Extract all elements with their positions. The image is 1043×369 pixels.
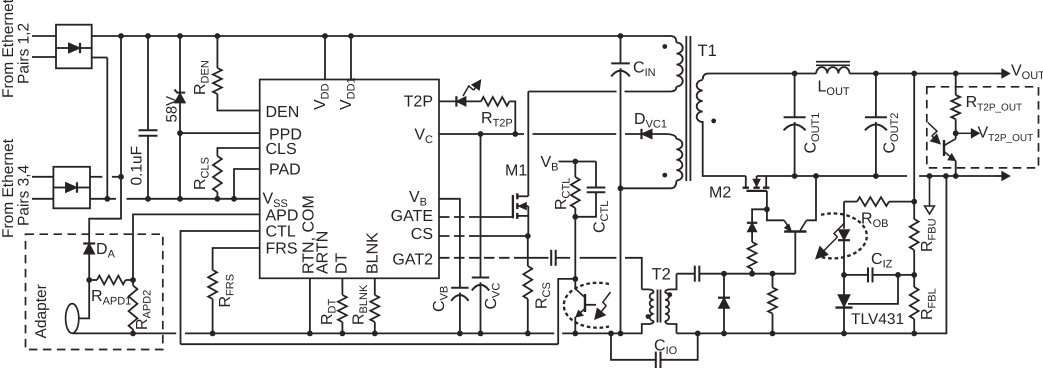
svg-text:Pairs 1,2: Pairs 1,2 — [16, 23, 33, 84]
junction LED cathode / TLV431 / CIZ — [841, 272, 847, 278]
wire T2 secondary to GND rail — [665, 321, 676, 334]
junction COUT2 top — [873, 71, 879, 77]
diode DVC1 — [640, 129, 642, 139]
wire BR2 positive out (crossover break at x=107) — [90, 176, 102, 178]
junction M1 source / CS / RCS — [525, 233, 531, 239]
junction RT2P on VC line — [512, 131, 518, 137]
pin RTN/ARTN stub to rail — [309, 278, 311, 333]
svg-text:M1: M1 — [505, 163, 527, 180]
svg-text:58V: 58V — [164, 96, 181, 123]
junction ground-marker — [927, 173, 933, 179]
wire pairs3,4 input top — [32, 176, 53, 178]
svg-text:RCTL: RCTL — [553, 178, 573, 210]
svg-text:GATE: GATE — [391, 208, 433, 225]
svg-text:Pairs 3,4: Pairs 3,4 — [16, 164, 33, 226]
svg-text:CS: CS — [411, 226, 433, 243]
wire primary RTN rail (breaks at CTL and opto verticals) — [72, 332, 176, 334]
T1 secondary winding — [703, 74, 709, 80]
svg-text:LOUT: LOUT — [818, 79, 850, 99]
svg-text:VDD1: VDD1 — [338, 77, 358, 110]
svg-text:GAT2: GAT2 — [392, 251, 433, 268]
arrow output return — [996, 175, 1002, 177]
resistor RAPD2 — [132, 280, 134, 285]
T1 bias winding — [676, 139, 682, 181]
wire secondary bottom to M2 drain — [703, 121, 746, 176]
svg-text:PAD: PAD — [269, 161, 301, 178]
wire Q3 base to drive line — [794, 232, 796, 274]
transformer T2 core — [657, 290, 659, 323]
wire secondary GND rail — [677, 176, 947, 333]
resistor RT2P_OUT — [955, 74, 957, 96]
svg-text:RT2P: RT2P — [481, 110, 513, 130]
junction BR2 positive — [118, 174, 124, 180]
wire jack tip to DA anode — [79, 280, 89, 318]
wire BR1 negative down to VSS rail — [106, 58, 108, 199]
junction gate-drive chain — [749, 271, 755, 277]
diode clamp on drive line — [723, 309, 725, 333]
light arrow into U3 (lightning) — [603, 292, 611, 306]
transistor Q3 PNP gate discharge — [784, 230, 806, 232]
diode DA — [83, 242, 95, 244]
wire gate node to speedup diode — [752, 209, 767, 223]
wire VOUT line — [709, 73, 817, 75]
svg-text:COUT2: COUT2 — [882, 113, 902, 154]
wire M1 source to CS — [527, 206, 529, 236]
svg-text:RCLS: RCLS — [192, 157, 212, 190]
T2 primary winding — [642, 289, 654, 292]
svg-text:Adapter: Adapter — [33, 284, 50, 338]
optocoupler U2 phototransistor — [943, 140, 945, 156]
LOUT core line 1 — [816, 61, 850, 63]
capacitor series drive — [694, 266, 696, 282]
dashed box T2P output — [927, 87, 1039, 168]
resistor RDEN — [216, 36, 218, 68]
junction REF tap — [895, 272, 901, 278]
resistor RDT — [341, 278, 343, 295]
transformer T1 core — [685, 36, 687, 181]
dashed circle opto U3 — [564, 283, 609, 328]
polarity dot T2 primary — [646, 314, 651, 319]
svg-text:CTL: CTL — [266, 223, 296, 240]
wire VOUT sense down — [913, 74, 915, 202]
svg-text:APD: APD — [266, 207, 299, 224]
polarity dot T2 secondary — [667, 292, 672, 297]
wire VB to RCTL — [559, 161, 576, 163]
transistor M1 n-channel MOSFET — [512, 195, 514, 218]
wire pairs1,2 input bottom — [32, 56, 56, 58]
pin VDD stub — [324, 36, 326, 80]
junction damping resistor — [770, 271, 776, 277]
svg-text:T2: T2 — [652, 266, 671, 284]
junction to secondary GND rail — [943, 173, 949, 179]
wire BR1 negative out — [92, 57, 107, 59]
svg-text:RT2P_OUT: RT2P_OUT — [966, 94, 1023, 114]
resistor gate-drive series — [748, 242, 757, 269]
resistor RFBU — [910, 219, 919, 250]
wire GAT2 (dashed run, series cap, crossover breaks) — [439, 257, 524, 259]
wire gate node to Q3 emitter — [767, 209, 784, 220]
svg-text:CLS: CLS — [266, 141, 297, 158]
svg-text:T1: T1 — [698, 42, 717, 60]
wire APD to adapter divider — [133, 214, 260, 280]
svg-text:VC: VC — [414, 127, 433, 147]
wire M1 drain to T1 primary — [527, 92, 529, 197]
arrow VOUT — [996, 73, 1002, 75]
wire pairs1,2 input top — [32, 35, 56, 37]
capacitor CIZ — [844, 274, 868, 276]
light arrow out (lightning) — [463, 86, 474, 96]
svg-text:DT: DT — [334, 252, 351, 274]
wire DVC1 anode to bias winding — [652, 134, 676, 139]
resistor damping on drive line — [772, 274, 774, 288]
svg-text:0.1uF: 0.1uF — [129, 146, 146, 186]
junction COUT1 top — [792, 71, 798, 77]
wire T2P pin — [439, 100, 456, 102]
junction FB divider — [911, 272, 917, 278]
junction M2 gate node — [764, 206, 770, 212]
svg-text:ARTN: ARTN — [315, 231, 332, 274]
junction DA / RAPD1 — [86, 277, 92, 283]
light arrow into U2 (lightning) — [928, 123, 937, 136]
junction RT2P_OUT top — [953, 71, 959, 77]
wire to CCTL top — [575, 161, 596, 163]
resistor RCS — [527, 236, 529, 266]
junction CVC top — [478, 131, 484, 137]
resistor RCLS — [217, 148, 259, 156]
diode gate-drive (series with resistor) — [747, 222, 757, 224]
wire DA to RAPD1 — [88, 254, 90, 280]
polarity dot T1 secondary — [711, 119, 716, 124]
svg-text:M2: M2 — [709, 185, 731, 202]
svg-text:RFBL: RFBL — [919, 288, 939, 320]
wire CS (dashed run) — [439, 235, 481, 237]
svg-text:COUT1: COUT1 — [802, 113, 822, 154]
resistor RAPD1 — [89, 279, 97, 281]
wire RCTL bottom to opto collector — [574, 217, 576, 279]
optocoupler U3 LED — [843, 202, 845, 229]
junction top rail / pairs3,4 positive — [118, 33, 124, 39]
shunt regulator TLV431 — [843, 275, 845, 295]
transistor M2 sync-rect MOSFET — [745, 176, 747, 188]
capacitor CIN — [620, 36, 622, 63]
svg-text:DVC1: DVC1 — [634, 111, 667, 131]
diode inside BR1 — [69, 43, 81, 53]
wire GATE (dashed run) — [439, 216, 481, 218]
svg-text:RFRS: RFRS — [217, 274, 237, 308]
dashed box Adapter — [26, 234, 163, 349]
svg-text:TLV431: TLV431 — [851, 311, 904, 328]
svg-text:RDT: RDT — [319, 298, 339, 325]
junction opto emitter — [953, 173, 959, 179]
arrow VT2P_OUT — [956, 132, 972, 134]
capacitor CVB — [451, 287, 468, 289]
LED optocoupler U2 (T2P) — [455, 96, 457, 106]
wire VC line (crossover breaks at x=528.3 and x=620.5) — [439, 133, 524, 135]
svg-text:VB: VB — [541, 154, 559, 174]
wire switch node T1 primary bottom (break at CIN) — [528, 91, 616, 93]
bridge rectifier BR2 (pairs 3,4) — [53, 167, 90, 209]
capacitor CIO — [611, 333, 656, 359]
svg-text:CIN: CIN — [633, 60, 656, 80]
svg-text:CIZ: CIZ — [871, 251, 893, 271]
svg-text:From Ethernet: From Ethernet — [0, 0, 17, 98]
resistor RBLNK — [374, 278, 376, 295]
junction clamp diode — [721, 271, 727, 277]
resistor ROB — [844, 201, 857, 203]
svg-text:From Ethernet: From Ethernet — [0, 138, 17, 238]
polarity dot T1 primary — [662, 44, 667, 49]
junction RCTL / CCTL bottom — [572, 214, 578, 220]
wire TLV431 ref — [848, 275, 898, 304]
wire VB pin to CVB — [439, 199, 460, 288]
resistor RCTL — [574, 162, 576, 178]
wire FRS — [213, 248, 260, 270]
svg-text:VT2P_OUT: VT2P_OUT — [978, 124, 1034, 144]
capacitor in GAT2 drive — [550, 250, 552, 266]
wire VSS rail (breaks at x=121 crossover) — [90, 198, 116, 200]
T2 secondary winding — [665, 274, 676, 293]
connector barrel jack — [66, 304, 79, 334]
junction RCTL top — [572, 159, 578, 165]
junction opto collector / RCTL — [572, 276, 578, 282]
resistor RFRS — [208, 270, 217, 299]
resistor RT2P — [481, 97, 509, 106]
capacitor CCTL — [587, 187, 606, 189]
svg-text:RAPD2: RAPD2 — [134, 290, 154, 330]
wire T2 primary to RTN — [642, 321, 654, 333]
svg-text:T2P: T2P — [404, 93, 433, 110]
T1 primary winding — [676, 43, 682, 87]
svg-text:BLNK: BLNK — [365, 232, 382, 274]
diode inside BR2 — [66, 183, 77, 193]
junction BR1 negative on VSS rail — [104, 196, 110, 202]
bridge rectifier BR1 (pairs 1,2) — [56, 25, 92, 69]
svg-text:DEN: DEN — [266, 104, 300, 121]
pin VDD1 stub — [350, 36, 352, 80]
junction RAPD1 / RAPD2 / APD — [130, 277, 136, 283]
resistor RFBL — [913, 275, 915, 287]
svg-text:RAPD1: RAPD1 — [91, 288, 131, 308]
svg-text:DA: DA — [96, 241, 116, 261]
zener TVS 58V — [179, 36, 181, 93]
wire M2 source rail to output return — [757, 175, 908, 177]
wire T2 drive line — [677, 273, 695, 275]
wire CTL rail to optocoupler — [181, 343, 559, 345]
wire CTL down — [181, 231, 260, 344]
svg-text:VB: VB — [409, 189, 427, 209]
svg-text:RDEN: RDEN — [192, 60, 212, 95]
wire pairs3,4 input bottom — [32, 198, 53, 200]
wire top VDD rail to T1 primary — [92, 36, 677, 43]
capacitor COUT1 — [794, 74, 796, 118]
light arrow out LED (lightning) — [834, 223, 845, 237]
capacitor COUT2 — [875, 74, 877, 118]
wire opto collector to CTL rail — [558, 279, 575, 344]
junction PPD tap on zener — [177, 130, 183, 136]
polarity dot T1 bias — [662, 173, 667, 178]
dashed circle opto LED — [821, 213, 867, 258]
capacitor CVC — [480, 134, 482, 278]
ground marker arrow — [929, 176, 931, 206]
svg-text:FRS: FRS — [266, 240, 298, 257]
junction VOUT sense — [911, 71, 917, 77]
wire PAD to VSS — [234, 169, 260, 199]
svg-text:VOUT: VOUT — [1011, 62, 1043, 82]
inductor LOUT — [816, 67, 849, 73]
wire PPD — [180, 132, 260, 134]
junction Q3 collector on return — [813, 173, 819, 179]
wire bias winding to CIN — [621, 181, 677, 189]
wire BR2+ / adapter diode to top rail — [89, 36, 121, 244]
svg-text:RBLNK: RBLNK — [351, 284, 371, 325]
IC U1 PoE PD controller — [260, 80, 439, 279]
svg-text:RCS: RCS — [534, 282, 554, 309]
svg-text:RFBU: RFBU — [919, 218, 939, 252]
wire Q3 collector to return rail — [807, 176, 817, 220]
svg-text:CIO: CIO — [654, 338, 678, 358]
junction CIN / bias winding return — [618, 185, 624, 191]
svg-text:VDD: VDD — [312, 83, 332, 110]
junction ROB / RFBU / VOUT sense — [911, 199, 917, 205]
capacitor 0.1uF — [147, 36, 149, 130]
junction VT2P_OUT — [953, 130, 959, 136]
svg-text:CVB: CVB — [431, 286, 451, 312]
